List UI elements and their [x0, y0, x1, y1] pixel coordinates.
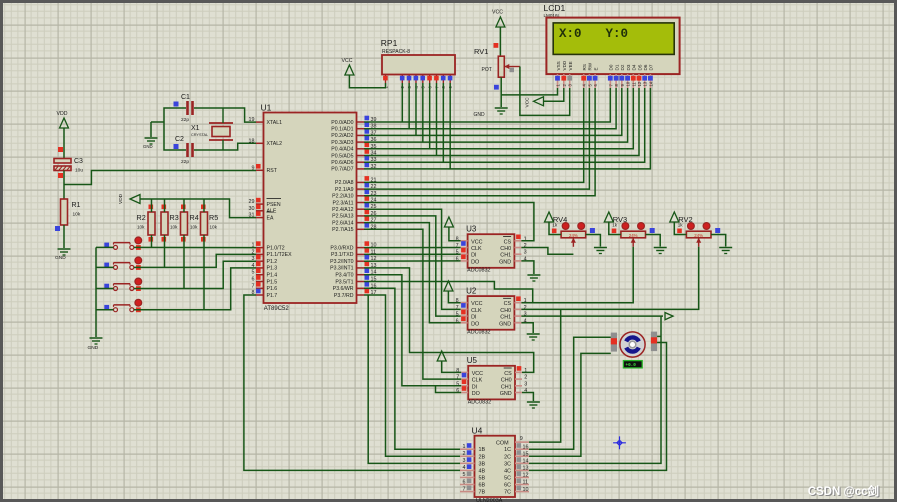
svg-text:P2.6/A14: P2.6/A14: [332, 220, 353, 226]
svg-text:19: 19: [249, 117, 255, 123]
wire P0.2 data bus to LCD D2: [364, 88, 622, 135]
wire P3.1 to U3 DI: [364, 253, 461, 255]
svg-text:DI: DI: [472, 384, 477, 390]
ground RV2: [719, 248, 732, 254]
svg-text:10k: 10k: [73, 212, 81, 218]
svg-text:DO: DO: [472, 391, 480, 397]
svg-text:GND: GND: [474, 112, 486, 118]
wire P0.7 data bus to LCD D7: [364, 88, 650, 169]
svg-text:VDD: VDD: [118, 193, 124, 204]
svg-text:6C: 6C: [504, 483, 511, 489]
svg-text:CH1: CH1: [500, 315, 511, 321]
svg-text:P0.1/AD1: P0.1/AD1: [331, 127, 353, 133]
svg-text:1k: 1k: [678, 223, 684, 228]
wire button2 to P1.1: [134, 254, 256, 267]
svg-text:12: 12: [637, 81, 642, 86]
svg-text:10: 10: [523, 487, 529, 493]
wire RV2 to ground: [711, 235, 726, 247]
wire VDD rail to EA: [140, 199, 256, 218]
wire U2 GND to ground: [521, 323, 533, 333]
ground RV3: [654, 248, 667, 254]
svg-text:1k: 1k: [552, 223, 558, 228]
svg-text:7: 7: [463, 486, 466, 492]
ground button bus: [88, 338, 103, 351]
wire RP1 pin7 to P0.5 bus: [436, 83, 438, 156]
svg-text:1: 1: [463, 444, 466, 450]
svg-text:D5: D5: [637, 64, 642, 70]
svg-text:P1.3: P1.3: [267, 266, 278, 272]
wire button bus left: [96, 247, 114, 337]
wire U3 GND to ground: [521, 261, 534, 274]
svg-text:24%: 24%: [694, 233, 703, 238]
potentiometer RV4 1k: [552, 215, 595, 247]
svg-text:7C: 7C: [504, 490, 511, 496]
svg-text:GND: GND: [499, 259, 511, 265]
node squares C3: [58, 147, 63, 178]
svg-text:ADC0832: ADC0832: [468, 399, 491, 405]
wire P3.4 to U5 DI: [364, 275, 461, 386]
svg-text:3: 3: [524, 250, 527, 256]
svg-text:P1.7: P1.7: [267, 293, 278, 299]
svg-text:D6: D6: [643, 64, 648, 70]
svg-text:ADC0832: ADC0832: [467, 330, 490, 336]
svg-text:24%: 24%: [629, 233, 638, 238]
capacitor C2: [174, 136, 193, 165]
svg-text:CH1: CH1: [501, 384, 512, 390]
ground crystal: [143, 138, 158, 149]
push button SW2: [104, 257, 141, 270]
svg-text:7: 7: [252, 283, 255, 289]
wire P0.4 data bus to LCD D4: [364, 88, 633, 149]
svg-text:1B: 1B: [479, 447, 486, 453]
svg-text:12: 12: [523, 473, 529, 479]
svg-text:U5: U5: [467, 356, 478, 365]
svg-text:DO: DO: [471, 321, 479, 327]
svg-text:30: 30: [249, 206, 255, 212]
svg-text:X:0: X:0: [559, 27, 582, 41]
wire C1 to XTAL1: [194, 108, 256, 122]
svg-text:P2.2/A10: P2.2/A10: [332, 194, 353, 200]
svg-text:VCC: VCC: [471, 239, 482, 245]
svg-text:P3.2/INT0: P3.2/INT0: [330, 259, 353, 265]
svg-text:R4: R4: [190, 213, 199, 222]
svg-text:CSDN @cc剑: CSDN @cc剑: [808, 484, 879, 498]
svg-text:U1: U1: [261, 103, 272, 113]
wire P2.2 to LCD E: [364, 88, 595, 196]
svg-text:GND: GND: [55, 255, 66, 261]
svg-text:13: 13: [523, 466, 529, 472]
svg-text:P3.1/TXD: P3.1/TXD: [331, 252, 354, 258]
wire VCC arrow to LCD VDD: [544, 88, 564, 101]
svg-text:VCC: VCC: [342, 58, 353, 64]
svg-text:C1: C1: [181, 94, 190, 101]
svg-text:P2.7/A15: P2.7/A15: [332, 227, 353, 233]
svg-text:4B: 4B: [479, 468, 486, 474]
wire P3.3 to U5 CS: [364, 268, 534, 373]
wire P3.5 to U2 CS: [364, 282, 533, 303]
svg-text:5B: 5B: [479, 475, 486, 481]
wire R3 to row2: [164, 235, 166, 267]
wire motor R1 to U4 3C: [515, 316, 661, 463]
svg-text:P2.1/A9: P2.1/A9: [335, 187, 354, 193]
resistors R2 R3 R4 R5 pullups: [137, 199, 219, 242]
svg-text:LCD1: LCD1: [544, 3, 566, 13]
wire P2.3 to U3 CS: [364, 203, 534, 241]
wire P0.1 data bus to LCD D1: [364, 88, 616, 129]
wire P0.5 data bus to LCD D5: [364, 88, 639, 156]
svg-text:R1: R1: [72, 202, 81, 209]
wire P2.7 to U5 CLK: [364, 229, 461, 379]
LCD display LCD1 LM016L: [544, 3, 680, 88]
svg-text:2: 2: [524, 375, 527, 381]
ground U3: [527, 275, 540, 281]
motor speed readout: [623, 361, 642, 369]
svg-text:POT: POT: [482, 67, 492, 73]
power VCC arrow U5: [437, 351, 461, 372]
svg-text:9: 9: [252, 165, 255, 171]
wire VSS to RV1 ground node: [501, 88, 557, 95]
svg-text:P3.3/INT1: P3.3/INT1: [330, 266, 353, 272]
wire RV1 bottom to ground: [494, 77, 501, 107]
svg-text:P0.7/AD7: P0.7/AD7: [331, 167, 353, 173]
svg-text:CH1: CH1: [500, 253, 511, 259]
svg-text:10k: 10k: [190, 225, 198, 230]
svg-text:10k: 10k: [137, 225, 145, 230]
svg-text:P0.0/AD0: P0.0/AD0: [331, 120, 353, 126]
potentiometer RV3 1k: [612, 215, 655, 247]
wire RP1 pin3 to P0.1 bus: [408, 83, 410, 129]
svg-text:3: 3: [463, 458, 466, 464]
svg-text:VCC: VCC: [472, 371, 483, 377]
svg-text:ULN2003A: ULN2003A: [476, 498, 503, 502]
svg-text:ADC0832: ADC0832: [467, 268, 490, 274]
svg-text:D1: D1: [614, 64, 619, 70]
potentiometer RV2 1k: [677, 215, 720, 247]
darlington driver U4 ULN2003A: [460, 426, 529, 502]
wire C2 to XTAL2: [194, 143, 256, 150]
svg-text:P0.6/AD6: P0.6/AD6: [331, 160, 353, 166]
svg-text:16: 16: [523, 444, 529, 450]
wire crystal gnd branch: [151, 122, 164, 137]
svg-text:VEE: VEE: [568, 61, 573, 70]
svg-text:DO: DO: [471, 259, 479, 265]
potentiometer RV1 POT: [474, 47, 520, 77]
wire R4 to row3: [183, 235, 185, 289]
svg-text:RP1: RP1: [381, 38, 398, 48]
svg-text:24%: 24%: [569, 233, 578, 238]
svg-text:D7: D7: [649, 64, 654, 70]
svg-text:RV1: RV1: [474, 47, 488, 56]
power VCC arrow RV2: [670, 212, 687, 235]
push button SW1: [104, 237, 141, 250]
svg-text:14: 14: [523, 459, 529, 465]
svg-text:U4: U4: [472, 426, 483, 436]
wire P3.0 to U3 CLK: [364, 247, 461, 249]
svg-text:C2: C2: [175, 136, 184, 143]
wire RP1 pin5 to P0.3 bus: [422, 83, 424, 142]
svg-text:DI: DI: [471, 253, 476, 259]
wire P0.0 data bus to LCD D0: [364, 88, 610, 122]
wire U4 COM riser: [529, 309, 561, 442]
svg-text:XTAL1: XTAL1: [267, 120, 283, 126]
svg-text:P3.6/WR: P3.6/WR: [333, 286, 354, 292]
svg-text:CH0: CH0: [500, 246, 511, 252]
ground U5: [527, 402, 540, 408]
svg-text:14: 14: [648, 81, 653, 86]
svg-text:PSEN: PSEN: [267, 202, 281, 208]
power VCC arrow U3: [444, 217, 460, 241]
watermark CSDN: [808, 484, 879, 498]
svg-text:11: 11: [631, 81, 636, 86]
svg-text:COM: COM: [496, 441, 509, 447]
wire motor L2 to U4 2C: [515, 353, 611, 456]
svg-text:C3: C3: [74, 158, 83, 165]
svg-text:6: 6: [252, 277, 255, 283]
wire RP1 pin2 to P0.0 bus: [401, 83, 403, 122]
push button SW4: [104, 299, 141, 312]
ground U2: [527, 334, 540, 340]
svg-text:P1.0/T2: P1.0/T2: [267, 245, 285, 251]
svg-text:P3.7/RD: P3.7/RD: [334, 293, 354, 299]
svg-text:P0.5/AD5: P0.5/AD5: [331, 153, 353, 159]
svg-text:4C: 4C: [504, 468, 511, 474]
svg-text:6B: 6B: [479, 483, 486, 489]
svg-text:10: 10: [626, 81, 631, 86]
svg-text:CRYSTAL: CRYSTAL: [191, 133, 208, 137]
svg-text:P3.0/RXD: P3.0/RXD: [330, 245, 353, 251]
svg-text:E: E: [593, 67, 598, 70]
svg-text:GND: GND: [143, 144, 153, 149]
wire RV2 wiper to U2 CH0: [521, 247, 698, 310]
svg-text:R5: R5: [209, 213, 218, 222]
wire motor L1 to U4 1C: [515, 337, 611, 449]
power VCC arrow RP1: [342, 58, 386, 88]
svg-text:D0: D0: [609, 64, 614, 70]
svg-text:CS: CS: [504, 301, 512, 307]
ADC U2 ADC0832: [456, 286, 527, 335]
svg-text:RS: RS: [582, 64, 587, 70]
wire motor R2 to U4 4C: [515, 343, 667, 471]
wire U4 3B riser: [368, 295, 460, 463]
svg-text:RW: RW: [588, 62, 593, 70]
svg-text:P3.4/T0: P3.4/T0: [335, 273, 353, 279]
capacitor C3: [54, 158, 83, 174]
svg-text:U3: U3: [466, 224, 477, 233]
svg-text:D3: D3: [626, 64, 631, 70]
svg-text:22p: 22p: [181, 159, 189, 165]
svg-text:RESPACK-8: RESPACK-8: [382, 49, 410, 55]
svg-text:XTAL2: XTAL2: [267, 141, 283, 147]
wire RP1 pin8 to P0.6 bus: [442, 83, 444, 162]
wire P3.2 to U3 DO: [364, 260, 461, 262]
svg-text:AT89C52: AT89C52: [264, 306, 290, 312]
wire RP1 pin9 to P0.7 bus: [449, 83, 451, 169]
wire RV4 to ground: [586, 235, 601, 247]
wire RV1 wiper to LCD VEE: [520, 67, 570, 116]
svg-text:6: 6: [463, 479, 466, 485]
svg-text:RST: RST: [267, 168, 278, 174]
wire R2 to row1: [151, 235, 153, 247]
svg-text:5: 5: [252, 270, 255, 276]
wire P2.6 to U2 DO: [364, 223, 461, 323]
svg-text:29: 29: [249, 199, 255, 205]
svg-text:U2: U2: [466, 286, 477, 295]
svg-text:GND: GND: [88, 345, 99, 351]
wire RV3 to ground: [646, 235, 661, 247]
ground RV4: [594, 248, 607, 254]
wire U5 DO jog: [436, 386, 462, 393]
power VCC arrow RV3: [604, 212, 621, 235]
wire R5 to row4: [203, 235, 205, 310]
wire U2 CH1 to motor sense: [521, 315, 661, 317]
svg-text:X1: X1: [191, 125, 200, 132]
wire U3 CH0 to RV4 wiper: [521, 248, 573, 255]
motor M1: [611, 332, 657, 358]
wire RP1 pin4 to P0.2 bus: [415, 83, 417, 135]
svg-text:VCC: VCC: [471, 301, 482, 307]
svg-text:10k: 10k: [170, 225, 178, 230]
wire button1 to P1.0: [134, 246, 256, 248]
svg-text:11: 11: [523, 480, 529, 486]
svg-text:5: 5: [463, 472, 466, 478]
svg-text:CS: CS: [504, 371, 512, 377]
wire C3 to R1: [63, 171, 65, 200]
ADC U5 ADC0832: [456, 356, 527, 405]
svg-text:10k: 10k: [210, 225, 218, 230]
svg-text:+0.0: +0.0: [626, 363, 637, 368]
origin marker: [613, 436, 626, 449]
power VCC arrow RV4: [545, 212, 562, 235]
svg-text:3C: 3C: [504, 461, 511, 467]
wire button4 to P1.3: [134, 268, 256, 310]
svg-text:VCC: VCC: [492, 10, 503, 16]
power VDD mid arrow: [118, 193, 140, 204]
power VCC arrow LCD VDD: [525, 97, 544, 108]
svg-text:VCC: VCC: [525, 97, 531, 108]
svg-text:10u: 10u: [75, 168, 83, 174]
svg-text:CS: CS: [504, 239, 512, 245]
push button SW3: [104, 278, 141, 291]
svg-text:1C: 1C: [504, 447, 511, 453]
svg-text:VDD: VDD: [57, 111, 68, 117]
wire C1 left rail: [164, 108, 186, 150]
svg-text:2C: 2C: [504, 454, 511, 460]
wire P2.0 to LCD RS: [364, 88, 584, 182]
wire P2.5 to U2 DI: [364, 216, 461, 316]
ADC U3 ADC0832: [456, 224, 527, 273]
svg-text:R2: R2: [137, 213, 146, 222]
svg-text:P2.0/A8: P2.0/A8: [335, 180, 354, 186]
wire R1 to ground: [63, 225, 65, 248]
power VCC arrow U2: [444, 281, 461, 303]
svg-text:3B: 3B: [479, 461, 486, 467]
svg-text:P1.4: P1.4: [267, 273, 278, 279]
svg-text:D4: D4: [632, 64, 637, 70]
svg-text:P2.4/A12: P2.4/A12: [332, 207, 353, 213]
wire P0.3 data bus to LCD D3: [364, 88, 628, 142]
svg-text:P0.2/AD2: P0.2/AD2: [331, 133, 353, 139]
svg-text:22p: 22p: [181, 117, 189, 123]
svg-text:D2: D2: [620, 64, 625, 70]
svg-text:P1.2: P1.2: [267, 259, 278, 265]
wire RP1 pin6 to P0.4 bus: [429, 83, 431, 149]
capacitor C1: [174, 94, 193, 123]
svg-text:R3: R3: [170, 213, 179, 222]
power VDD top-left: [57, 111, 69, 158]
wire reset node to RST: [64, 171, 256, 185]
svg-text:7B: 7B: [479, 490, 486, 496]
svg-text:P1.1/T2EX: P1.1/T2EX: [267, 252, 293, 258]
crystal X1: [191, 108, 233, 150]
svg-text:VSS: VSS: [556, 61, 561, 70]
wire P1.7 to U4 4B: [244, 295, 460, 470]
resistor pack RP1 RESPACK-8: [381, 38, 455, 89]
svg-text:13: 13: [643, 81, 648, 86]
svg-text:4: 4: [463, 465, 466, 471]
wire RV3 wiper to U2 CS net: [533, 247, 634, 303]
svg-text:P1.6: P1.6: [267, 286, 278, 292]
svg-text:CH0: CH0: [501, 378, 512, 384]
svg-text:3: 3: [524, 381, 527, 387]
svg-text:CLK: CLK: [472, 378, 483, 384]
svg-text:18: 18: [249, 138, 255, 144]
svg-text:5C: 5C: [504, 475, 511, 481]
svg-text:1k: 1k: [612, 223, 618, 228]
svg-text:CLK: CLK: [471, 308, 482, 314]
svg-text:P2.5/A13: P2.5/A13: [332, 214, 353, 220]
wire U5 GND to ground: [522, 393, 533, 402]
wire P3.7 to U4 2B: [364, 295, 460, 456]
svg-text:DI: DI: [471, 315, 476, 321]
svg-text:2: 2: [463, 451, 466, 457]
wire button3 to P1.2: [134, 261, 256, 288]
microcontroller U1 AT89C52: [249, 103, 377, 313]
svg-text:GND: GND: [500, 391, 512, 397]
svg-text:EA: EA: [267, 215, 274, 221]
svg-text:CH0: CH0: [500, 308, 511, 314]
svg-text:2B: 2B: [479, 454, 486, 460]
wire P2.4 to U2 CLK: [364, 209, 461, 309]
svg-text:GND: GND: [499, 321, 511, 327]
svg-text:P0.3/AD3: P0.3/AD3: [331, 140, 353, 146]
svg-text:CLK: CLK: [471, 246, 482, 252]
wire P3.6 to U4 1B: [364, 288, 460, 449]
power VCC arrow RV1: [492, 10, 505, 57]
svg-text:P2.3/A11: P2.3/A11: [333, 200, 354, 206]
svg-text:VDD: VDD: [562, 60, 567, 70]
svg-text:P0.4/AD4: P0.4/AD4: [331, 147, 353, 153]
svg-text:15: 15: [523, 451, 529, 457]
resistor R1: [55, 199, 81, 231]
ground below R1: [55, 249, 71, 261]
ground RV1: [474, 108, 508, 118]
wire P0.6 data bus to LCD D6: [364, 88, 645, 162]
svg-text:Y:0: Y:0: [606, 27, 629, 41]
terminal arrow motor sense: [661, 313, 673, 320]
svg-text:P3.5/T1: P3.5/T1: [335, 279, 353, 285]
svg-text:P1.5: P1.5: [267, 279, 278, 285]
wire P2.1 to LCD RW: [364, 88, 589, 189]
